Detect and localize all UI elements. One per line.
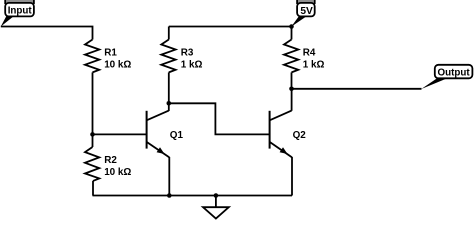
node Output flag [421,65,472,89]
wire Q2 emitter to rail [291,157,293,196]
svg-text:1 kΩ: 1 kΩ [181,60,203,71]
node B junction dot (R3/Q1 collector) [167,101,172,106]
transistor Q1 [147,103,184,157]
svg-text:Q2: Q2 [293,130,307,141]
ground [203,196,229,219]
svg-text:Input: Input [8,6,33,17]
node A junction dot [90,132,95,137]
svg-text:R4: R4 [303,48,316,59]
svg-text:R2: R2 [104,155,117,166]
node 5V flag [291,0,315,27]
svg-text:Output: Output [438,68,471,79]
wire 5V rail [169,26,292,28]
wire output net [292,88,422,90]
resistor R1 [85,40,131,73]
resistor R2 [85,134,131,195]
node ground rail junction dot [214,193,219,198]
node Q1 emitter rail junction dot [167,193,172,198]
resistor R3 [161,27,202,104]
node Input flag [1,0,34,27]
wire input net [1,27,93,40]
svg-text:10 kΩ: 10 kΩ [104,167,131,178]
wire R1 bottom to node A [92,72,94,134]
svg-text:5V: 5V [300,6,313,17]
svg-text:R1: R1 [104,48,117,59]
wire Q1 emitter to rail [168,157,170,196]
node 5V junction dot [289,24,294,29]
wire node A to Q1 base [93,133,147,135]
node C junction dot (R4/output/Q2 collector) [289,87,294,92]
svg-text:Q1: Q1 [170,130,184,141]
transistor Q2 [270,89,307,158]
resistor R4 [284,27,325,89]
wire bottom rail [93,195,293,197]
svg-text:R3: R3 [181,48,194,59]
svg-text:10 kΩ: 10 kΩ [104,60,131,71]
wire node B to Q2 base [169,103,270,134]
svg-text:1 kΩ: 1 kΩ [303,60,325,71]
